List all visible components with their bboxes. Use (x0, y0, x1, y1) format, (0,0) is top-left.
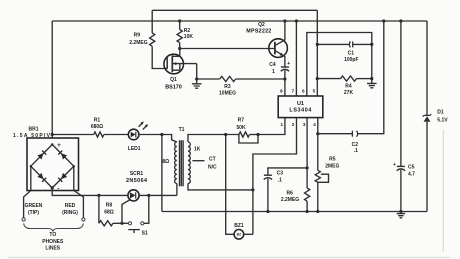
svg-text:+: + (393, 162, 396, 168)
svg-text:CT: CT (209, 156, 216, 162)
svg-text:Q2: Q2 (258, 22, 265, 28)
svg-text:.1: .1 (278, 178, 282, 184)
node: Q1 drain / R2 / Q2 base junction (178, 47, 181, 50)
svg-text:27K: 27K (344, 90, 354, 96)
capacitor C3 .1 (264, 168, 307, 213)
svg-text:R4: R4 (345, 84, 352, 90)
svg-text:2.2MEG: 2.2MEG (129, 40, 147, 46)
svg-text:R8: R8 (106, 203, 113, 209)
svg-text:7: 7 (292, 89, 295, 94)
resistor R5 2MEG (trimmer) (315, 156, 339, 213)
svg-text:68Ω: 68Ω (104, 209, 114, 215)
resistor R4 27K (316, 76, 374, 96)
resistor R9 (129, 33, 155, 47)
capacitor C2 .1 (318, 19, 386, 154)
svg-text:4: 4 (313, 122, 316, 127)
svg-text:50K: 50K (236, 125, 246, 131)
wire: center tap CT N/C (192, 156, 217, 170)
svg-text:R2: R2 (184, 28, 191, 34)
svg-text:BS170: BS170 (165, 84, 181, 90)
brace: to phones lines (24, 224, 84, 252)
svg-text:BZ1: BZ1 (234, 223, 244, 229)
resistor R3 (197, 76, 285, 96)
node: secondary-bottom junction on pin2 line (251, 188, 254, 191)
svg-text:+: + (57, 143, 61, 149)
wire: pin 6 up and right to ground net (307, 33, 372, 97)
svg-text:5.1V: 5.1V (437, 117, 448, 123)
svg-text:(TIP): (TIP) (28, 210, 39, 216)
svg-text:N/C: N/C (208, 164, 217, 170)
wire: pin 3 down through R6 to bottom rail (306, 118, 308, 188)
wire: riser from LED net down to bottom rail (161, 135, 163, 212)
node: source/R3/ground junction (195, 77, 198, 80)
wire: LED net to transformer primary top (162, 135, 177, 143)
node: R8 branch junction (97, 194, 100, 197)
node: LED / riser / primary junction (160, 133, 163, 136)
svg-text:Q1: Q1 (170, 77, 177, 83)
svg-text:+: + (287, 61, 290, 67)
svg-text:S1: S1 (142, 231, 148, 237)
svg-text:LS3404: LS3404 (289, 108, 311, 114)
svg-text:4.7: 4.7 (408, 171, 415, 177)
wire: second horizontal rail (bridge + bus) (52, 20, 427, 22)
switch S1 (128, 195, 149, 236)
capacitor C5 4.7 (393, 19, 415, 213)
svg-text:R3: R3 (224, 84, 231, 90)
capacitor C4 (269, 61, 290, 96)
wire: top supply rail (152, 9, 317, 11)
resistor R8 68ohm (99, 195, 128, 226)
thyristor SCR1 2N5064 (122, 171, 177, 223)
svg-text:C1: C1 (348, 51, 355, 57)
svg-text:.1: .1 (354, 148, 358, 154)
svg-text:BR1: BR1 (28, 126, 38, 132)
buzzer BZ1 (234, 223, 253, 239)
svg-text:GREEN: GREEN (25, 203, 43, 209)
wire: R7 junction down to buzzer left (226, 135, 234, 235)
svg-text:8: 8 (280, 89, 283, 94)
svg-text:2N5064: 2N5064 (126, 178, 147, 184)
wire: junction to Q2 base (180, 48, 275, 50)
svg-text:C4: C4 (269, 62, 276, 68)
phone line terminal RED (RING) (62, 166, 85, 221)
svg-text:C5: C5 (408, 164, 415, 170)
wire: bottom common rail (162, 211, 427, 213)
svg-text:3: 3 (303, 122, 306, 127)
svg-text:R9: R9 (134, 33, 141, 39)
svg-text:2.2MEG: 2.2MEG (281, 197, 299, 203)
wire: pin 2 to transformer secondary / buzzer (253, 118, 297, 235)
wire: secondary top lead to R7 (188, 135, 239, 143)
svg-text:8Ω: 8Ω (162, 159, 169, 165)
zener diode D1 5.1V (423, 21, 449, 212)
svg-text:1K: 1K (194, 146, 201, 152)
resistor R6 2.2MEG (281, 188, 310, 213)
wire: pin 5 riser to top rail (316, 10, 318, 96)
svg-text:10MEG: 10MEG (219, 91, 236, 97)
svg-text:U1: U1 (297, 101, 304, 107)
svg-text:PHONES: PHONES (42, 239, 64, 245)
resistor R1 680ohm (52, 118, 128, 137)
svg-text:680Ω: 680Ω (91, 124, 103, 130)
wire: pin 1 down/left to R7 wiper (258, 118, 285, 135)
scan artifact: faint right vertical (442, 130, 444, 252)
svg-text:1: 1 (281, 122, 284, 127)
svg-text:C3: C3 (277, 171, 284, 177)
wire: pin 4 down through R5 to bottom rail (317, 118, 319, 171)
wire: R9 top lead from top rail (151, 10, 153, 33)
svg-text:1: 1 (272, 69, 275, 75)
svg-text:T1: T1 (179, 127, 185, 133)
svg-text:1.5A 50PIV: 1.5A 50PIV (13, 133, 51, 139)
svg-text:6: 6 (302, 89, 305, 94)
node: S1 return junction on cathode wire (147, 194, 150, 197)
ground under Q1 (192, 79, 202, 88)
bridge rectifier BR1 (13, 126, 79, 192)
svg-text:2: 2 (292, 122, 295, 127)
svg-text:R5: R5 (329, 156, 336, 162)
wire: left drop from rail to bridge + (51, 21, 53, 145)
capacitor C1 100pF (316, 41, 374, 63)
svg-text:(RING): (RING) (62, 210, 78, 216)
op-amp U1 LS3404 (IC box) (278, 96, 323, 118)
ground at right of R4 (367, 83, 377, 87)
resistor R7 50K (pot) (236, 118, 259, 143)
scan artifact: faint bottom streak (8, 256, 450, 258)
svg-text:R1: R1 (94, 118, 101, 124)
svg-text:LINES: LINES (45, 245, 60, 251)
wire: pin 7 to rail (295, 21, 297, 96)
ground under C5 (397, 212, 405, 218)
phone line terminal GREEN (TIP) (22, 166, 43, 221)
wire: bridge minus to SCR row (52, 188, 128, 196)
svg-text:2MEG: 2MEG (325, 163, 339, 169)
node: BZ1-left branch on R7 wire (224, 133, 227, 136)
transistor Q2 MPS2222 (246, 19, 287, 67)
node: pin4 / C2 junction (316, 132, 319, 135)
svg-text:SCR1: SCR1 (130, 171, 144, 177)
svg-text:R6: R6 (286, 190, 293, 196)
resistor R2 (177, 19, 193, 48)
node: R3 / C4 / pin8 junction (283, 77, 286, 80)
transistor Q1 BS170 (164, 49, 197, 91)
node: SCR gate / R8 / S1 junction (120, 222, 123, 225)
svg-text:10K: 10K (184, 34, 194, 40)
svg-text:RED: RED (65, 203, 76, 209)
wire: secondary bottom lead to pin2 net (188, 183, 253, 190)
svg-text:-: - (57, 187, 59, 193)
wire: primary bottom lead (176, 183, 178, 195)
svg-text:R7: R7 (238, 118, 245, 124)
svg-text:5: 5 (313, 89, 316, 94)
svg-text:BZ: BZ (237, 233, 242, 237)
svg-text:MPS2222: MPS2222 (246, 28, 271, 34)
svg-text:TO: TO (49, 232, 56, 238)
node: R1 branch junction (51, 133, 54, 136)
wire: Q1 source down to ground/R3 node (196, 64, 198, 79)
svg-text:C2: C2 (352, 142, 359, 148)
svg-text:D1: D1 (437, 110, 444, 116)
node: C3 branch junction (306, 166, 309, 169)
LED1 (128, 121, 162, 151)
svg-text:100pF: 100pF (344, 57, 358, 63)
svg-text:LED1: LED1 (128, 146, 141, 152)
transformer T1 (162, 127, 200, 186)
wire: R9 bottom to Q1 gate (152, 46, 167, 68)
